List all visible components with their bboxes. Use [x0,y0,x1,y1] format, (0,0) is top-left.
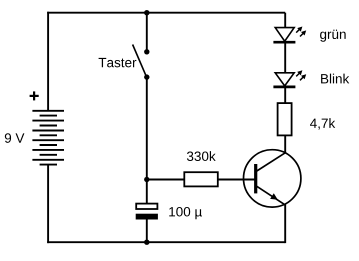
wire right vertical (top rail to LED1) [284,13,286,28]
switch S1 lower contact [144,74,149,79]
LED D2 emission arrow 2 [300,74,306,80]
node junction bottom middle [144,240,149,245]
wire LED2 to R2 [284,87,286,103]
transistor Q1 emitter arrowhead [270,193,278,200]
LED D2 triangle (Blink) [275,73,294,86]
battery B1 plus sign [30,91,39,100]
LED D1 triangle (gruen) [275,28,294,42]
node junction top middle [144,10,149,15]
wire LED1 to LED2 [284,42,286,73]
switch S1 label Taster [99,58,137,67]
switch S1 upper contact [144,49,149,54]
resistor R2 value label 4,7k [310,118,335,130]
wire middle (switch to cap junction) [146,77,148,204]
wire R2 to transistor collector [284,135,286,152]
wire transistor emitter to bottom rail [284,204,286,243]
LED D1 cathode bar [273,41,295,44]
wire cap bottom lead [146,220,148,243]
LED D2 emission arrow 1 [296,70,302,76]
resistor R1 body 330k [184,172,218,186]
wire base left (junction to 330k) [147,179,185,181]
battery B1 value label 9 V [5,133,25,143]
transistor Q1 base bar [254,164,257,193]
LED D2 label Blink [321,74,349,84]
wire base right (330k to transistor base) [218,179,256,181]
wire left vertical (battery bottom lead) [47,165,49,244]
capacitor C1 top plate [136,204,157,209]
capacitor C1 bottom plate [136,214,158,220]
transistor Q1 emitter stroke [257,186,286,205]
capacitor C1 value label 100 µ [169,207,202,219]
LED D1 label gruen [320,30,346,42]
resistor R2 body 4,7k [278,103,292,135]
node junction middle (base divider) [144,177,149,182]
wire bottom rail [47,241,285,243]
wire left vertical (battery top lead) [47,12,49,111]
wire middle top (to switch) [146,13,148,52]
resistor R1 value label 330k [187,151,216,161]
switch S1 blade [133,45,147,77]
LED D1 emission arrow 1 [296,27,302,33]
battery B1 plates [32,111,64,165]
wire top rail [47,12,285,14]
transistor Q1 body circle [244,150,301,207]
LED D2 cathode bar [273,86,295,89]
transistor Q1 collector stroke [257,153,286,171]
LED D1 emission arrow 2 [300,30,306,36]
